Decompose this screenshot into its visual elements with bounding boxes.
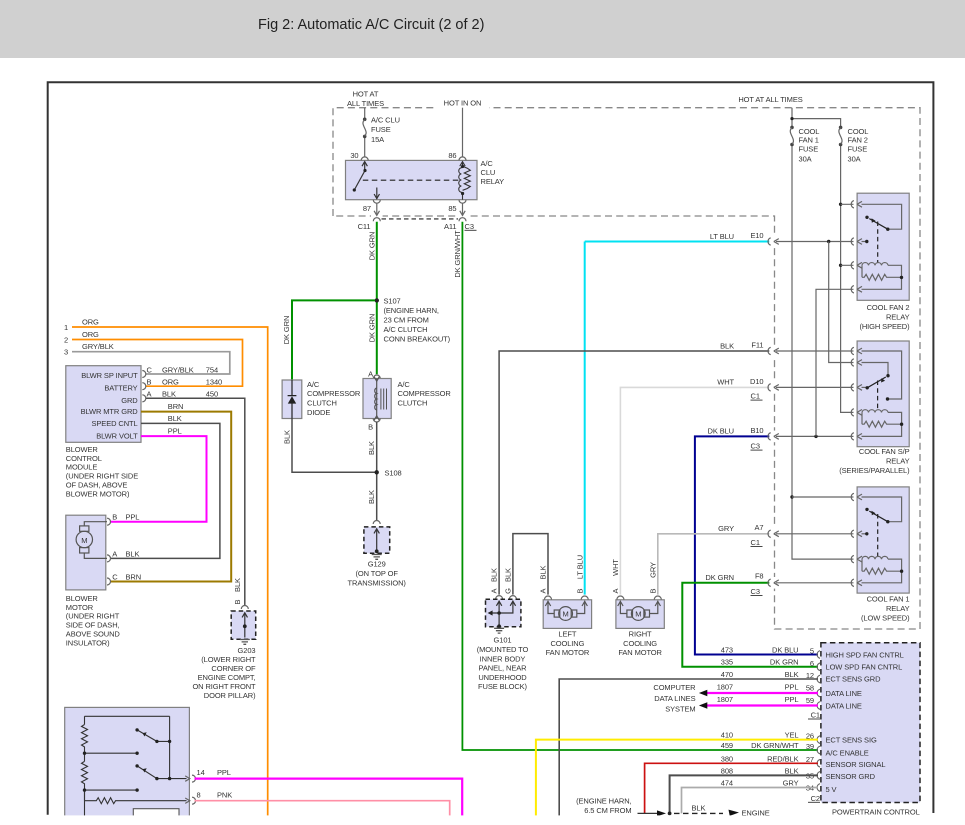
svg-text:A/C: A/C	[481, 159, 494, 168]
ground G101 pin A bump	[496, 596, 503, 600]
svg-text:DK GRN: DK GRN	[705, 573, 734, 582]
svg-text:B: B	[112, 513, 117, 522]
blower motor caption	[66, 594, 121, 648]
svg-text:SPEED CNTL: SPEED CNTL	[91, 419, 137, 428]
svg-text:LOW SPD FAN CNTRL: LOW SPD FAN CNTRL	[826, 663, 903, 672]
wire F11 to SP pin 1	[776, 350, 854, 352]
switch arm 2	[137, 766, 186, 779]
wire PPL 1807 to PCM pin 58	[707, 692, 819, 694]
svg-text:RELAY: RELAY	[886, 313, 910, 322]
svg-text:PPL: PPL	[126, 513, 140, 522]
svg-text:INNER BODY: INNER BODY	[480, 654, 526, 663]
svg-text:6: 6	[810, 659, 814, 668]
offpage arrow (pin 59)	[699, 702, 707, 708]
svg-text:473: 473	[721, 645, 733, 654]
SP pin 2	[851, 359, 862, 366]
svg-text:FAN MOTOR: FAN MOTOR	[618, 648, 662, 657]
SP switch contact	[862, 351, 902, 399]
svg-text:A: A	[490, 588, 499, 593]
wire PNK pin 8	[195, 801, 450, 820]
wire fuse1 to CF1 pins	[790, 495, 853, 559]
svg-text:COOLING: COOLING	[623, 639, 657, 648]
blower motor symbol	[76, 522, 107, 559]
CF2 coil and resistor	[862, 263, 902, 290]
svg-text:B10: B10	[750, 426, 763, 435]
svg-text:M: M	[563, 610, 569, 619]
svg-text:ALL TIMES: ALL TIMES	[347, 99, 384, 108]
svg-text:GRD: GRD	[121, 396, 138, 405]
module U3 POWERTRAIN CONTROL MODULE box	[821, 643, 920, 803]
svg-text:GRY: GRY	[783, 779, 799, 788]
white gaps on dashed boundary at connectors	[371, 213, 778, 589]
svg-text:86: 86	[448, 151, 456, 160]
switch pin 14	[185, 775, 195, 782]
splice S107	[375, 298, 379, 302]
switch S1 BLOWER SPEED SWITCH box	[65, 707, 190, 816]
svg-text:CONTROL: CONTROL	[66, 454, 102, 463]
blower pin B	[107, 518, 111, 525]
left fan motor symbol	[545, 601, 587, 621]
relay K1 COOL FAN 1 RELAY box	[857, 487, 909, 593]
svg-text:DK BLU: DK BLU	[772, 645, 799, 654]
motor M1 BLOWER MOTOR box	[66, 515, 106, 590]
svg-text:CORNER OF: CORNER OF	[211, 664, 256, 673]
svg-text:RIGHT: RIGHT	[629, 629, 652, 638]
svg-text:DOOR PILLAR): DOOR PILLAR)	[204, 691, 256, 700]
svg-text:M: M	[81, 536, 87, 545]
svg-text:3: 3	[64, 348, 68, 357]
svg-text:ORG: ORG	[82, 317, 99, 326]
connector dashed link C11-A11	[382, 218, 459, 220]
svg-text:39: 39	[806, 742, 814, 751]
CF2 pin 2	[851, 238, 862, 245]
module pin A	[142, 395, 146, 402]
svg-text:(UNDER RIGHT SIDE: (UNDER RIGHT SIDE	[66, 472, 138, 481]
svg-text:(ENGINE HARN,: (ENGINE HARN,	[576, 797, 631, 806]
right fan pin A bump	[617, 596, 624, 600]
label 335 DK GRN	[721, 658, 799, 667]
svg-text:PNK: PNK	[217, 790, 232, 799]
fuse COOL FAN 2 FUSE 30A	[839, 126, 843, 147]
wire BLK left fan pin A to G101 pin G	[513, 534, 548, 595]
wire DK GRN C11 to S107 to clutch pin A	[376, 222, 378, 374]
svg-text:C: C	[112, 572, 118, 581]
svg-text:COOL: COOL	[799, 127, 820, 136]
right fan motor symbol	[618, 601, 661, 621]
svg-text:BLOWER: BLOWER	[66, 594, 99, 603]
bottom clip mask	[0, 815, 965, 825]
PCM pin 39	[817, 746, 820, 754]
wire BLK 470 to PCM pin 12	[559, 679, 818, 820]
svg-text:C2: C2	[811, 794, 820, 803]
wire fuse2 to CF2/SP coil pins	[839, 203, 854, 413]
pin 85 bump	[459, 200, 466, 204]
wire A7 to CF1 pin 2	[776, 533, 854, 535]
svg-text:TRANSMISSION): TRANSMISSION)	[348, 579, 407, 588]
svg-text:(LOWER RIGHT: (LOWER RIGHT	[201, 655, 256, 664]
CF2 switch contact	[862, 204, 902, 241]
svg-text:FUSE: FUSE	[371, 125, 391, 134]
CF2 pin 1	[851, 201, 862, 208]
svg-text:PPL: PPL	[168, 427, 182, 436]
svg-text:F8: F8	[755, 572, 764, 581]
SP coil and resistor	[862, 410, 902, 437]
svg-text:LT BLU: LT BLU	[575, 555, 584, 579]
wire BLK 808 to PCM pin 35	[670, 775, 818, 813]
svg-text:A: A	[112, 549, 117, 558]
PCM pin 58	[817, 689, 820, 697]
svg-text:A/C: A/C	[398, 380, 411, 389]
svg-text:335: 335	[721, 658, 733, 667]
wire RED/BLK 380 to PCM pin 27	[645, 763, 818, 813]
svg-text:OF DASH, ABOVE: OF DASH, ABOVE	[66, 481, 128, 490]
label 473 DK BLU	[721, 645, 799, 654]
ground G129 box	[364, 527, 390, 553]
PCM pin 27	[817, 760, 820, 768]
svg-text:ORG: ORG	[162, 378, 179, 387]
wire LT BLU left fan feed	[584, 242, 586, 595]
wire GRY 474 to PCM pin 34	[682, 788, 819, 814]
svg-text:DK GRN/WHT: DK GRN/WHT	[751, 741, 799, 750]
svg-text:GRY: GRY	[718, 524, 734, 533]
blower pin C	[107, 578, 111, 585]
SP dashed coil link	[877, 381, 879, 410]
svg-text:FUSE: FUSE	[799, 144, 819, 153]
svg-text:BLK: BLK	[168, 414, 182, 423]
svg-text:COMPUTER: COMPUTER	[653, 683, 696, 692]
svg-text:754: 754	[206, 365, 218, 374]
PCM pin 6	[817, 663, 820, 671]
connector B10	[768, 433, 779, 440]
ground G101 pin G bump	[509, 596, 516, 600]
svg-text:DATA LINE: DATA LINE	[826, 689, 862, 698]
relay internal dashed link	[363, 179, 461, 181]
svg-text:1807: 1807	[717, 682, 733, 691]
wire COOL FAN fuses feed junction	[790, 108, 840, 497]
PCM pin 12	[817, 675, 820, 683]
wire PPL pin 14	[195, 779, 463, 820]
offpage arrow (pin 58)	[699, 690, 707, 696]
connector D10	[768, 384, 779, 391]
svg-text:30A: 30A	[799, 154, 812, 163]
svg-text:(MOUNTED TO: (MOUNTED TO	[477, 645, 529, 654]
switch pin 8	[185, 797, 195, 804]
ground G203 connector bump	[241, 606, 248, 610]
connector E10	[768, 238, 779, 245]
svg-text:A: A	[368, 369, 373, 378]
svg-text:(ENGINE HARN,: (ENGINE HARN,	[384, 306, 439, 315]
resistor R3 (switch bottom)	[85, 790, 187, 804]
svg-text:59: 59	[806, 696, 814, 705]
CF1 pin 2	[851, 530, 862, 537]
svg-text:C1: C1	[811, 711, 820, 720]
svg-text:C1: C1	[751, 392, 760, 401]
pin 86	[459, 157, 466, 161]
svg-text:SENSOR SIGNAL: SENSOR SIGNAL	[826, 760, 886, 769]
svg-text:(LOW SPEED): (LOW SPEED)	[861, 614, 910, 623]
svg-text:2: 2	[64, 336, 68, 345]
svg-text:HOT AT ALL TIMES: HOT AT ALL TIMES	[738, 95, 802, 104]
svg-text:SYSTEM: SYSTEM	[665, 705, 695, 714]
connector F11	[768, 347, 779, 354]
PCM pin 26	[817, 736, 820, 744]
connector A11 bump	[459, 218, 466, 222]
motor M2 LEFT COOLING FAN MOTOR box	[543, 600, 591, 629]
svg-text:ORG: ORG	[82, 330, 99, 339]
svg-text:RED/BLK: RED/BLK	[767, 754, 798, 763]
svg-text:D10: D10	[750, 377, 763, 386]
relay coil with parallel resistor (pins 86-85)	[459, 162, 471, 200]
svg-text:S108: S108	[385, 468, 402, 477]
wire LT BLU E10 row	[585, 241, 770, 243]
module U2 BLOWER CONTROL MODULE box	[66, 366, 141, 443]
wire HOT IN ON feed	[462, 108, 464, 158]
svg-text:A: A	[147, 390, 152, 399]
svg-text:PPL: PPL	[217, 768, 231, 777]
left fan pin A bump	[545, 596, 552, 600]
svg-text:CLUTCH: CLUTCH	[398, 399, 428, 408]
svg-text:WHT: WHT	[717, 378, 734, 387]
svg-text:COOL FAN S/P: COOL FAN S/P	[859, 447, 910, 456]
left fan caption	[546, 629, 590, 657]
svg-text:BLK: BLK	[126, 549, 140, 558]
svg-text:DK GRN: DK GRN	[770, 658, 799, 667]
svg-text:E10: E10	[750, 231, 763, 240]
svg-text:808: 808	[721, 767, 733, 776]
label A/C CLU RELAY	[481, 159, 505, 186]
svg-text:CLU: CLU	[481, 168, 496, 177]
svg-text:HIGH SPD FAN CNTRL: HIGH SPD FAN CNTRL	[826, 650, 904, 659]
svg-text:FUSE BLOCK): FUSE BLOCK)	[478, 682, 528, 691]
wire E10 to CF2 pin 2 with junction	[776, 240, 854, 243]
switch row A	[85, 752, 138, 754]
svg-text:MODULE: MODULE	[66, 463, 98, 472]
svg-text:DIODE: DIODE	[307, 408, 330, 417]
svg-text:GRY/BLK: GRY/BLK	[162, 365, 194, 374]
switch junction dots	[135, 728, 138, 731]
relay K3 COOL FAN S/P RELAY box	[857, 341, 909, 447]
PCM pin 5	[817, 651, 820, 659]
svg-text:G203: G203	[238, 646, 256, 655]
svg-text:BLK: BLK	[367, 490, 376, 504]
clutch L1 A/C COMPRESSOR CLUTCH	[373, 375, 380, 379]
svg-text:DK GRN: DK GRN	[282, 316, 291, 345]
svg-text:85: 85	[448, 204, 456, 213]
wire BLK clutch B to S108 to G129	[376, 422, 378, 521]
svg-text:1: 1	[64, 323, 68, 332]
svg-text:BLK: BLK	[692, 804, 706, 813]
wire WHT D10 row to right fan pin A	[620, 387, 769, 594]
wire BLK 450 module pin A to G203	[146, 398, 245, 605]
svg-text:C: C	[147, 365, 153, 374]
wire BLK module SPEED CNTL to blower pin A	[168, 414, 182, 423]
CF2 pin 4	[851, 286, 862, 293]
svg-text:GRY: GRY	[648, 562, 657, 578]
svg-text:M: M	[635, 610, 641, 619]
white gap behind HOT IN ON	[436, 96, 489, 110]
label COOL FAN 1 RELAY	[861, 595, 910, 623]
svg-text:CONN BREAKOUT): CONN BREAKOUT)	[384, 335, 451, 344]
svg-text:1807: 1807	[717, 695, 733, 704]
svg-text:ABOVE SOUND: ABOVE SOUND	[66, 630, 121, 639]
svg-text:A7: A7	[755, 523, 764, 532]
svg-text:BRN: BRN	[168, 402, 184, 411]
wire DK GRN F8 row to PCM pin 6	[682, 583, 818, 667]
wire pin85 to connector A11	[460, 203, 465, 215]
svg-text:RELAY: RELAY	[886, 457, 910, 466]
svg-text:COOLING: COOLING	[550, 639, 584, 648]
svg-text:410: 410	[721, 731, 733, 740]
svg-text:ENGINE COMPT,: ENGINE COMPT,	[198, 673, 256, 682]
svg-text:BLK: BLK	[785, 670, 799, 679]
svg-text:F11: F11	[751, 340, 763, 349]
label 459 DK GRN/WHT	[721, 741, 799, 750]
CF1 switch contact	[862, 497, 902, 534]
svg-text:RELAY: RELAY	[886, 604, 910, 613]
wire DK GRN S107 branch to diode	[292, 300, 375, 380]
switch inner panel	[133, 809, 179, 825]
svg-text:S107: S107	[384, 297, 401, 306]
pin 87 stub with arrow	[374, 188, 379, 200]
svg-text:5: 5	[810, 647, 814, 656]
right fan pin B bump	[654, 596, 661, 600]
PCM pin 59	[817, 702, 820, 710]
wire A/C CLU fuse feed	[363, 108, 367, 158]
svg-text:FUSE: FUSE	[848, 144, 868, 153]
svg-text:LEFT: LEFT	[558, 629, 576, 638]
svg-text:FAN 2: FAN 2	[848, 136, 868, 145]
ground G101 box	[486, 599, 521, 626]
wire PPL 1807 to PCM pin 59	[707, 704, 819, 706]
resistor R1 (switch)	[82, 716, 88, 753]
svg-text:C3: C3	[751, 442, 760, 451]
switch arm 1	[137, 730, 170, 742]
diode D1 A/C COMPRESSOR CLUTCH DIODE box	[282, 380, 302, 419]
svg-text:459: 459	[721, 741, 733, 750]
wire CF2 pin4 down to B10	[816, 289, 854, 436]
wire DK BLU B10 row to PCM pin 5	[695, 436, 818, 654]
connector A7	[768, 530, 779, 537]
svg-text:BLK: BLK	[367, 441, 376, 455]
ground G203 box	[231, 611, 256, 639]
motor M3 RIGHT COOLING FAN MOTOR box	[616, 600, 664, 629]
svg-text:BLWR MTR GRD: BLWR MTR GRD	[81, 407, 139, 416]
svg-text:14: 14	[197, 768, 205, 777]
svg-text:(HIGH SPEED): (HIGH SPEED)	[859, 322, 910, 331]
CF1 pin 4	[851, 579, 862, 586]
wire GRY A7 row to right fan pin B	[658, 534, 770, 595]
blower pin A	[107, 555, 111, 562]
right fan caption	[618, 629, 662, 657]
ground G101 caption	[477, 636, 529, 691]
svg-text:SENSOR GRD: SENSOR GRD	[826, 772, 876, 781]
svg-text:PANEL, NEAR: PANEL, NEAR	[479, 664, 528, 673]
svg-text:ECT SENS GRD: ECT SENS GRD	[826, 675, 882, 684]
svg-text:30: 30	[350, 151, 358, 160]
svg-text:UNDERHOOD: UNDERHOOD	[478, 673, 527, 682]
svg-text:MOTOR: MOTOR	[66, 603, 94, 612]
wire junction E10 to SP pin 2	[829, 242, 854, 363]
svg-text:15A: 15A	[371, 135, 384, 144]
SP pin 3	[851, 384, 862, 391]
svg-text:(UNDER RIGHT: (UNDER RIGHT	[66, 612, 120, 621]
svg-text:FAN MOTOR: FAN MOTOR	[546, 648, 590, 657]
svg-text:C3: C3	[751, 587, 760, 596]
relay switch contact (pins 30-87)	[354, 162, 367, 190]
svg-text:COMPRESSOR: COMPRESSOR	[398, 389, 452, 398]
svg-text:A11: A11	[444, 222, 457, 231]
resistor R2 (switch)	[82, 753, 88, 801]
splice S108	[375, 470, 379, 474]
svg-text:B: B	[233, 599, 242, 604]
CF1 dashed coil link	[877, 514, 879, 557]
label COOL FAN S/P RELAY	[839, 447, 910, 475]
svg-text:1340: 1340	[206, 378, 222, 387]
PCM pin 35	[817, 772, 820, 780]
svg-text:(ON TOP OF: (ON TOP OF	[356, 569, 399, 578]
svg-text:BLOWER: BLOWER	[66, 445, 99, 454]
svg-text:FAN 1: FAN 1	[799, 136, 819, 145]
svg-text:8: 8	[197, 790, 201, 799]
pin 30	[361, 157, 368, 161]
fuse A/C CLU FUSE 15A	[371, 116, 400, 145]
svg-text:LT BLU: LT BLU	[710, 232, 734, 241]
svg-text:HOT IN ON: HOT IN ON	[444, 99, 482, 108]
svg-text:(SERIES/PARALLEL): (SERIES/PARALLEL)	[839, 466, 910, 475]
svg-text:SIDE OF DASH,: SIDE OF DASH,	[66, 621, 120, 630]
svg-text:DK GRN: DK GRN	[367, 232, 376, 261]
relay K2 COOL FAN 2 RELAY box	[857, 193, 909, 300]
svg-text:C1: C1	[751, 538, 760, 547]
svg-text:INSULATOR): INSULATOR)	[66, 639, 110, 648]
fuse COOL FAN 1 FUSE 30A	[790, 126, 794, 147]
CF1 pin 1	[851, 493, 862, 500]
svg-text:BLK: BLK	[539, 565, 548, 579]
svg-text:PPL: PPL	[785, 682, 799, 691]
label COMPUTER DATA LINES SYSTEM	[653, 683, 696, 714]
svg-text:C3: C3	[465, 222, 474, 231]
svg-text:COMPRESSOR: COMPRESSOR	[307, 389, 361, 398]
svg-text:G129: G129	[368, 560, 386, 569]
svg-text:BLOWER MOTOR): BLOWER MOTOR)	[66, 489, 130, 498]
svg-text:380: 380	[721, 754, 733, 763]
wire PPL module BLWR VOLT to blower pin B	[168, 427, 182, 436]
svg-text:A/C CLU: A/C CLU	[371, 116, 400, 125]
SP pin 4	[851, 409, 862, 416]
svg-text:B: B	[147, 378, 152, 387]
relay U1 A/C CLU RELAY box	[346, 160, 478, 199]
svg-text:474: 474	[721, 779, 733, 788]
SP pin 5	[851, 433, 862, 440]
svg-text:COOL FAN 2: COOL FAN 2	[867, 303, 910, 312]
svg-text:470: 470	[721, 670, 733, 679]
switch top bus	[85, 715, 170, 717]
svg-text:YEL: YEL	[785, 731, 799, 740]
svg-text:BATTERY: BATTERY	[104, 384, 137, 393]
svg-text:87: 87	[363, 204, 371, 213]
svg-text:A/C CLUTCH: A/C CLUTCH	[384, 325, 428, 334]
engine ground pointer	[638, 810, 740, 817]
CF2 pin 3	[851, 262, 862, 269]
svg-text:BLK: BLK	[503, 568, 512, 582]
svg-text:CLUTCH: CLUTCH	[307, 399, 337, 408]
svg-text:C11: C11	[358, 222, 371, 231]
svg-text:G101: G101	[494, 636, 512, 645]
svg-text:BRN: BRN	[126, 572, 142, 581]
svg-text:GRY/BLK: GRY/BLK	[82, 342, 114, 351]
switch row B	[85, 789, 138, 791]
SP pin 1	[851, 347, 862, 354]
